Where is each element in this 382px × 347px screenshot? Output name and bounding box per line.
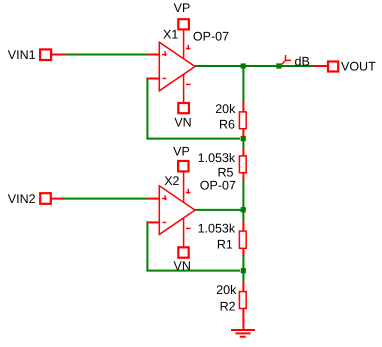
label OP-07 of X2: [200, 179, 236, 193]
wire R1 bottom to R1/R2 node: [242, 255, 244, 269]
svg-text:VP: VP: [173, 145, 190, 159]
resistor R5: [239, 148, 246, 180]
label X1: [163, 28, 178, 42]
value 1.053k of R1: [198, 222, 236, 236]
power pin VN of X2: [174, 247, 191, 273]
wire VIN2 to X2 noninverting input: [63, 198, 149, 200]
svg-text:VIN1: VIN1: [8, 48, 36, 62]
label R5: [218, 166, 234, 180]
label R6: [219, 118, 235, 132]
junction at X1 output and R6: [241, 63, 246, 68]
resistor R1: [239, 222, 246, 256]
wire VIN1 to X1 noninverting input: [64, 54, 149, 56]
svg-text:X2: X2: [164, 174, 179, 188]
svg-text:VOUT: VOUT: [341, 60, 376, 74]
svg-text:X1: X1: [163, 28, 178, 42]
svg-text:R2: R2: [220, 299, 236, 313]
svg-text:1.053k: 1.053k: [198, 222, 236, 236]
wire X2 feedback from inverting input to R1/R2 node: [147, 222, 240, 270]
svg-text:20k: 20k: [216, 283, 237, 297]
svg-text:1.053k: 1.053k: [198, 151, 236, 165]
power pin VP of X2: [173, 145, 190, 172]
wire X1 output node down to R6: [242, 66, 244, 102]
svg-text:OP-07: OP-07: [193, 29, 229, 43]
svg-text:VIN2: VIN2: [8, 192, 36, 206]
svg-text:R1: R1: [217, 238, 233, 252]
junction at R6/R5 feedback node: [241, 136, 246, 141]
wire R5 bottom to X2 output node: [242, 180, 244, 209]
junction at dB measurement point: [276, 63, 281, 68]
power pin VP of X1: [174, 1, 191, 29]
svg-text:VN: VN: [174, 116, 191, 130]
wire X2 output to node: [195, 209, 243, 211]
junction at R1/R2 feedback node: [241, 268, 246, 273]
resistor R6: [239, 101, 246, 137]
port VIN2: [8, 192, 64, 206]
port VOUT: [314, 60, 376, 74]
ground: [231, 330, 255, 337]
label R2: [220, 299, 236, 313]
label R1: [217, 238, 233, 252]
junction at X2 output node: [241, 207, 246, 212]
wire X1 output to VOUT (output net): [195, 65, 314, 67]
power pin VN of X1: [174, 103, 191, 130]
svg-text:VP: VP: [174, 1, 191, 15]
svg-text:20k: 20k: [215, 102, 236, 116]
label OP-07 of X1: [193, 29, 229, 43]
value 20k of R2: [216, 283, 237, 297]
wire R6/R5 node segment: [242, 140, 244, 149]
wire X2 output node down to R1: [242, 212, 244, 223]
op-amp X2: [148, 172, 195, 247]
svg-text:OP-07: OP-07: [200, 179, 236, 193]
svg-text:dB: dB: [295, 55, 310, 69]
wire X1 feedback from inverting input to R6/R5 node: [147, 79, 240, 139]
op-amp X1: [148, 30, 195, 103]
value 20k of R6: [215, 102, 236, 116]
resistor R2: [239, 281, 246, 330]
dB measurement probe: [282, 55, 310, 69]
value 1.053k of R5: [198, 151, 236, 165]
svg-text:R5: R5: [218, 166, 234, 180]
svg-text:R6: R6: [219, 118, 235, 132]
wire R1/R2 node down to R2: [242, 272, 244, 282]
svg-text:VN: VN: [174, 259, 191, 273]
port VIN1: [8, 48, 65, 62]
label X2: [164, 174, 179, 188]
